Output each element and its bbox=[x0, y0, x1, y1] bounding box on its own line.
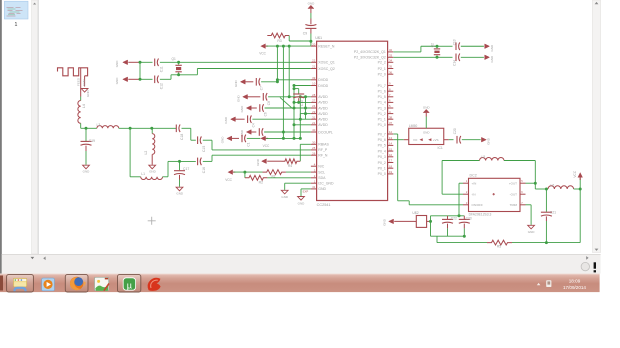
svg-text:AVDD: AVDD bbox=[318, 106, 328, 110]
capacitor C15 bbox=[197, 136, 199, 144]
wire AVDD row1 bbox=[289, 96, 311, 98]
diagonal wire bbox=[280, 97, 293, 108]
node C21 bottom bbox=[545, 241, 548, 244]
svg-text:32: 32 bbox=[389, 48, 393, 52]
node pullup bbox=[243, 171, 246, 174]
wire P0_6 to LM50 bbox=[393, 139, 403, 141]
wire node to L3 bbox=[86, 127, 97, 129]
icon red player bbox=[148, 278, 161, 291]
svg-text:22: 22 bbox=[312, 59, 316, 63]
wire VS to C20 bbox=[449, 139, 454, 141]
svg-text:28: 28 bbox=[312, 93, 316, 97]
svg-text:GND: GND bbox=[115, 60, 119, 68]
svg-text:VO: VO bbox=[413, 138, 418, 142]
pin I2C_GND 1 bbox=[311, 182, 317, 184]
svg-text:C6: C6 bbox=[263, 112, 267, 116]
pin GND 41 bbox=[311, 188, 317, 190]
svg-text:C12: C12 bbox=[159, 83, 163, 89]
bus wire V5 bbox=[299, 97, 301, 139]
node C12 gnd bbox=[139, 78, 142, 81]
wire to L1 bbox=[129, 128, 131, 177]
pin P0_5 14 bbox=[388, 144, 394, 146]
icon explorer folder bbox=[13, 278, 26, 291]
svg-text:GND: GND bbox=[224, 116, 228, 124]
pin P0_7 12 bbox=[388, 133, 394, 135]
wire DVDD2 bbox=[294, 85, 311, 87]
panel divider bbox=[38, 0, 39, 254]
bus wire V6 bbox=[305, 97, 307, 119]
svg-text:10: 10 bbox=[312, 82, 316, 86]
svg-text:P0_4: P0_4 bbox=[378, 149, 386, 153]
bus wire V1 bbox=[276, 46, 278, 82]
svg-text:-OUT: -OUT bbox=[510, 193, 517, 197]
capacitor C9 bbox=[305, 27, 316, 29]
inductor L5 bbox=[480, 157, 504, 160]
wire C11 to XOSC_Q1 bbox=[160, 61, 311, 63]
svg-text:12: 12 bbox=[389, 130, 393, 134]
svg-text:C18: C18 bbox=[180, 134, 184, 140]
resistor R5 bbox=[487, 240, 512, 245]
wire AVDD row3 bbox=[294, 107, 311, 109]
pin AVDD 29 bbox=[311, 113, 317, 115]
svg-text:+VS: +VS bbox=[433, 138, 439, 142]
wire P0_7 to ONOFF bbox=[393, 133, 397, 135]
svg-text:41: 41 bbox=[312, 185, 316, 189]
sidebar dropdown arrow bbox=[31, 257, 35, 259]
svg-text:+OUT: +OUT bbox=[509, 182, 517, 186]
svg-text:29: 29 bbox=[312, 110, 316, 114]
wire VCC to RESET_N bbox=[266, 45, 311, 47]
svg-text:C19: C19 bbox=[89, 139, 95, 143]
capacitor C17 bbox=[179, 161, 181, 170]
svg-text:GND: GND bbox=[82, 79, 86, 87]
svg-text:GND: GND bbox=[234, 80, 238, 88]
svg-text:AVDD: AVDD bbox=[318, 123, 328, 127]
node VCC out bbox=[579, 188, 582, 191]
wire L1 up bbox=[163, 176, 169, 178]
pin P0_4 15 bbox=[388, 150, 394, 152]
svg-text:U$1: U$1 bbox=[315, 36, 322, 40]
tray icon bbox=[546, 280, 551, 287]
svg-text:37: 37 bbox=[389, 121, 393, 125]
pin AVDD 24 bbox=[311, 107, 317, 109]
svg-text:1: 1 bbox=[15, 22, 18, 28]
wire to L6 bbox=[534, 183, 536, 189]
svg-text:21: 21 bbox=[312, 121, 316, 125]
svg-text:17/09/2014: 17/09/2014 bbox=[563, 285, 586, 290]
svg-text:N/C: N/C bbox=[318, 165, 325, 169]
pin AVDD 21 bbox=[311, 124, 317, 126]
svg-text:C11: C11 bbox=[159, 66, 163, 72]
pin RF_N 26 bbox=[311, 154, 317, 156]
ground TRIM bbox=[528, 225, 535, 229]
ground chip bbox=[298, 197, 305, 201]
capacitor C13 bbox=[455, 42, 457, 50]
svg-text:C4: C4 bbox=[252, 123, 256, 127]
svg-text:DVDD: DVDD bbox=[318, 84, 328, 88]
inductor L4 bbox=[78, 101, 81, 124]
wire R3 to node bbox=[288, 36, 290, 42]
pin P2_4/XOSC32K_Q1 32 bbox=[388, 51, 394, 53]
svg-text:18: 18 bbox=[389, 164, 393, 168]
svg-text:ON/OFF: ON/OFF bbox=[472, 203, 483, 207]
svg-text:18:09: 18:09 bbox=[569, 278, 581, 283]
pin DCOUPL 40 bbox=[311, 131, 317, 133]
sidebar scrollbar bbox=[32, 0, 38, 254]
pin N/C 4 bbox=[311, 165, 317, 167]
svg-text:GND: GND bbox=[115, 77, 119, 85]
start orb sliver bbox=[0, 276, 3, 291]
svg-text:GND: GND bbox=[423, 105, 431, 109]
svg-text:GND: GND bbox=[281, 195, 289, 199]
window left border bbox=[0, 0, 2, 274]
wire -IN to L5 bbox=[442, 193, 463, 195]
wire L4 to node bbox=[80, 123, 82, 128]
svg-text:EXP: EXP bbox=[303, 189, 309, 193]
svg-text:DCOUPL: DCOUPL bbox=[318, 130, 333, 134]
svg-text:R2: R2 bbox=[259, 180, 263, 184]
svg-text:VCC: VCC bbox=[573, 170, 577, 177]
svg-text:L6: L6 bbox=[551, 183, 555, 187]
svg-text:C15: C15 bbox=[202, 146, 206, 152]
antenna FEED pin bbox=[80, 68, 82, 97]
wire to C13 bbox=[437, 45, 453, 47]
svg-text:FEED: FEED bbox=[76, 77, 80, 86]
svg-text:C7: C7 bbox=[260, 86, 264, 90]
svg-text:34: 34 bbox=[389, 59, 393, 63]
node RESET bbox=[309, 40, 312, 43]
vertical scrollbar bbox=[592, 0, 600, 253]
svg-text:35: 35 bbox=[389, 65, 393, 69]
svg-text:30: 30 bbox=[312, 141, 316, 145]
cap bottom rail bbox=[431, 235, 465, 237]
supply VCC pullups bbox=[228, 170, 233, 175]
svg-text:GND: GND bbox=[149, 170, 157, 174]
svg-text:SDA: SDA bbox=[318, 176, 326, 180]
tray hidden icons arrow bbox=[537, 283, 541, 285]
pin RF_P 25 bbox=[311, 149, 317, 151]
hscroll left arrow bbox=[43, 257, 45, 261]
ground L2 bbox=[149, 165, 156, 169]
pin DC2 6 bbox=[520, 193, 526, 195]
svg-text:RESET_N: RESET_N bbox=[318, 44, 335, 48]
resistor R2 SDA bbox=[244, 172, 246, 178]
antenna E1 meander bbox=[58, 68, 88, 76]
svg-text:P0_2: P0_2 bbox=[378, 161, 386, 165]
wire to C14 bbox=[437, 56, 453, 58]
inductor L2 bbox=[151, 128, 153, 133]
svg-text:C9: C9 bbox=[303, 32, 307, 36]
node Q2 top bbox=[436, 45, 439, 48]
wire C16 to RF_N bbox=[203, 160, 212, 162]
pin AVDD 27 bbox=[311, 101, 317, 103]
svg-text:GND: GND bbox=[86, 90, 90, 98]
pin P1_5 7 bbox=[388, 96, 394, 98]
svg-text:P2_0: P2_0 bbox=[378, 73, 386, 77]
svg-text:XOSC_Q2: XOSC_Q2 bbox=[318, 67, 335, 71]
ground arrow C13 bbox=[485, 44, 490, 49]
capacitor C16 bbox=[180, 160, 196, 162]
svg-text:C20: C20 bbox=[453, 128, 457, 134]
pin DC2 3 bbox=[463, 204, 469, 206]
horizontal scrollbar band bbox=[2, 254, 601, 274]
svg-text:GND: GND bbox=[308, 1, 316, 5]
capacitor C20 bbox=[456, 136, 458, 144]
svg-text:C8: C8 bbox=[267, 101, 271, 105]
svg-text:P1_3: P1_3 bbox=[378, 106, 386, 110]
sidebar thumbnail page 1 bbox=[4, 1, 28, 19]
svg-text:C10: C10 bbox=[300, 100, 304, 106]
node v2 bbox=[282, 45, 285, 48]
pin P0_6 13 bbox=[388, 139, 394, 141]
pin P2_0 36 bbox=[388, 73, 394, 75]
svg-text:25: 25 bbox=[312, 146, 316, 150]
pin P0_3 16 bbox=[388, 156, 394, 158]
svg-text:DC2: DC2 bbox=[470, 174, 477, 178]
svg-text:GND: GND bbox=[318, 187, 326, 191]
pin P1_3 5 bbox=[388, 107, 394, 109]
wire GND pin bbox=[301, 188, 311, 190]
wire VCC down rail bbox=[579, 189, 581, 243]
svg-text:36: 36 bbox=[389, 70, 393, 74]
wire U$2 to cap rail bbox=[430, 216, 432, 236]
wire Q1 to XOSC_Q2 bbox=[179, 74, 198, 76]
crystal Q2 bbox=[436, 46, 438, 48]
svg-text:C21: C21 bbox=[550, 211, 556, 215]
svg-text:P1_1: P1_1 bbox=[378, 118, 386, 122]
wire DVDD1 bbox=[277, 79, 311, 81]
svg-text:GND: GND bbox=[528, 230, 536, 234]
svg-text:20: 20 bbox=[312, 42, 316, 46]
ground C17 bbox=[176, 187, 183, 191]
wire L6 to VCC node bbox=[574, 188, 581, 190]
pin DC2 1 bbox=[463, 182, 469, 184]
capacitor C21 bbox=[545, 188, 548, 191]
crystal Q1 bbox=[178, 62, 180, 64]
status circle icon bbox=[581, 262, 589, 270]
svg-text:XOSC_Q1: XOSC_Q1 bbox=[318, 61, 335, 65]
resistor R3 bbox=[267, 33, 289, 38]
svg-text:38: 38 bbox=[389, 115, 393, 119]
svg-text:P0_6: P0_6 bbox=[378, 138, 386, 142]
node Q2 bottom bbox=[436, 56, 439, 59]
resistor R4 bbox=[282, 159, 301, 164]
ground C19 bbox=[83, 165, 90, 169]
svg-text:Q2: Q2 bbox=[431, 43, 435, 47]
svg-text:L4: L4 bbox=[82, 104, 86, 108]
power module DC2 body bbox=[469, 178, 521, 211]
svg-text:GND: GND bbox=[221, 136, 225, 144]
svg-text:P2_4/XOSC32K_Q1: P2_4/XOSC32K_Q1 bbox=[354, 50, 386, 54]
svg-text:L5: L5 bbox=[482, 155, 486, 159]
svg-text:24: 24 bbox=[312, 104, 316, 108]
svg-text:GND: GND bbox=[176, 192, 184, 196]
capacitor C22 bbox=[447, 216, 449, 220]
supply VCC out bbox=[579, 179, 581, 189]
svg-text:RBIAS: RBIAS bbox=[318, 143, 329, 147]
node U$2 out bbox=[429, 220, 431, 222]
cursor exclamation mark bbox=[594, 262, 596, 268]
pin P1_0 37 bbox=[388, 124, 394, 126]
wire L3 to node2 bbox=[119, 127, 152, 129]
bus wire V2 bbox=[282, 46, 284, 138]
node antenna match bbox=[85, 127, 88, 130]
svg-text:33: 33 bbox=[389, 54, 393, 58]
rail to caps bbox=[436, 236, 438, 242]
svg-text:DVDD: DVDD bbox=[318, 78, 328, 82]
svg-text:27: 27 bbox=[312, 99, 316, 103]
svg-text:VCC: VCC bbox=[225, 178, 232, 182]
hscroll right arrow bbox=[586, 256, 588, 260]
pin AVDD 28 bbox=[311, 96, 317, 98]
svg-text:SCL: SCL bbox=[318, 170, 325, 174]
svg-text:16: 16 bbox=[389, 153, 393, 157]
ground I2C bbox=[281, 190, 288, 194]
pin P2_1 35 bbox=[388, 68, 394, 70]
svg-text:GND: GND bbox=[256, 158, 260, 166]
taskbar button firefox bbox=[65, 275, 88, 292]
node C17 bbox=[178, 160, 181, 163]
wire L5 to +OUT bbox=[504, 160, 535, 162]
svg-text:VCC: VCC bbox=[259, 51, 266, 55]
svg-text:21: 21 bbox=[312, 65, 316, 69]
wire XOSC32K_Q1 bbox=[393, 51, 421, 53]
svg-text:C13: C13 bbox=[452, 39, 456, 45]
node L3-L2 bbox=[150, 127, 153, 130]
svg-text:AVDD: AVDD bbox=[318, 112, 328, 116]
supply VCC cluster bbox=[260, 136, 265, 141]
inductor L3 bbox=[97, 126, 119, 129]
wire C15 to RF_P bbox=[203, 139, 212, 141]
node +OUT bbox=[534, 182, 537, 185]
gnd link C11 C12 bbox=[139, 62, 141, 79]
svg-text:C16: C16 bbox=[202, 167, 206, 173]
pin P2_3/XOSC32K_Q2 33 bbox=[388, 56, 394, 58]
svg-text:AVDD: AVDD bbox=[318, 118, 328, 122]
node Q1 top bbox=[177, 61, 180, 64]
pin P1_4 6 bbox=[388, 101, 394, 103]
supply VCC reset bbox=[260, 44, 265, 49]
icon image viewer bbox=[95, 277, 110, 291]
pin VO bbox=[404, 139, 409, 141]
svg-text:IC1: IC1 bbox=[438, 146, 443, 150]
svg-text:P0_0: P0_0 bbox=[378, 172, 386, 176]
svg-text:GND: GND bbox=[83, 170, 91, 174]
pin P0_2 17 bbox=[388, 162, 394, 164]
svg-text:L3: L3 bbox=[97, 123, 101, 127]
svg-text:P1_2: P1_2 bbox=[378, 112, 386, 116]
wire TRIM gnd bbox=[526, 204, 532, 206]
svg-text:P1_6: P1_6 bbox=[378, 90, 386, 94]
svg-text:U$2: U$2 bbox=[412, 211, 418, 215]
pin XOSC_Q2 21 bbox=[311, 68, 317, 70]
svg-text:C23: C23 bbox=[466, 216, 472, 220]
pin XOSC_Q1 22 bbox=[311, 61, 317, 63]
svg-text:C17: C17 bbox=[183, 167, 189, 171]
svg-text:GND: GND bbox=[423, 131, 429, 135]
capacitor C18 bbox=[152, 127, 176, 129]
svg-text:R4: R4 bbox=[288, 164, 292, 168]
pin DVDD 10 bbox=[311, 85, 317, 87]
svg-text:P2_2: P2_2 bbox=[378, 61, 386, 65]
svg-text:C14: C14 bbox=[452, 60, 456, 66]
capacitor C11 bbox=[140, 61, 153, 63]
pin P1_7 9 bbox=[388, 85, 394, 87]
svg-text:P0_1: P0_1 bbox=[378, 167, 386, 171]
ground below antenna bbox=[81, 89, 88, 93]
icon firefox bbox=[70, 277, 86, 290]
pin DC2 7 bbox=[520, 204, 526, 206]
svg-text:R5: R5 bbox=[497, 245, 501, 249]
pin DC2 5 bbox=[520, 182, 526, 184]
svg-text:13: 13 bbox=[389, 136, 393, 140]
pin +VS bbox=[444, 139, 449, 141]
svg-text:P2_3/XOSC32K_Q2: P2_3/XOSC32K_Q2 bbox=[354, 56, 386, 60]
svg-text:GND: GND bbox=[382, 218, 386, 226]
svg-text:C22: C22 bbox=[451, 216, 457, 220]
svg-text:RF_P: RF_P bbox=[318, 148, 328, 152]
wire AVDD row2 bbox=[294, 101, 311, 103]
pin RESET_N 20 bbox=[311, 45, 317, 47]
capacitor C19 bbox=[85, 128, 87, 141]
capacitor C10 bbox=[294, 88, 299, 90]
svg-text:P0_3: P0_3 bbox=[378, 155, 386, 159]
capacitor C14 bbox=[455, 54, 457, 62]
svg-text:GND: GND bbox=[236, 95, 240, 103]
svg-text:Q1: Q1 bbox=[172, 57, 176, 61]
capacitor C23 bbox=[463, 216, 465, 220]
wire AVDD row5 bbox=[300, 118, 311, 120]
svg-text:R3: R3 bbox=[277, 39, 281, 43]
svg-text:GND: GND bbox=[490, 55, 494, 63]
svg-text:C1: C1 bbox=[246, 142, 250, 146]
svg-text:P1_0: P1_0 bbox=[378, 123, 386, 127]
wire RBIAS bbox=[300, 143, 311, 145]
svg-text:40: 40 bbox=[312, 128, 316, 132]
wire AVDD row6 bbox=[294, 124, 311, 126]
svg-text:P1_5: P1_5 bbox=[378, 95, 386, 99]
svg-text:P1_7: P1_7 bbox=[378, 84, 386, 88]
node Q1 bottom bbox=[177, 73, 180, 76]
wire DCOUPL bbox=[283, 131, 311, 133]
svg-text:I2C_GND: I2C_GND bbox=[318, 182, 334, 186]
pin RBIAS 30 bbox=[311, 143, 317, 145]
wire gnd to C9 bbox=[310, 9, 312, 13]
svg-text:GND: GND bbox=[298, 201, 306, 205]
svg-text:17: 17 bbox=[389, 159, 393, 163]
ground arrow C14 bbox=[485, 55, 490, 60]
taskbar button utorrent bbox=[118, 275, 141, 292]
wire C12 to Q1 bbox=[160, 78, 171, 80]
svg-text:GND: GND bbox=[240, 105, 244, 113]
svg-text:GND: GND bbox=[490, 44, 494, 52]
svg-text:µ: µ bbox=[127, 280, 132, 290]
taskbar button explorer bbox=[7, 275, 34, 292]
svg-text:P0_7: P0_7 bbox=[378, 132, 386, 136]
antenna GND pin bbox=[84, 76, 86, 87]
svg-text:-IN: -IN bbox=[472, 193, 476, 197]
pin DC2 2 bbox=[463, 193, 469, 195]
svg-text:LM50: LM50 bbox=[409, 124, 418, 128]
svg-text:AVDD: AVDD bbox=[318, 95, 328, 99]
svg-text:P0_5: P0_5 bbox=[378, 144, 386, 148]
svg-text:14: 14 bbox=[389, 142, 393, 146]
pin DVDD 39 bbox=[311, 79, 317, 81]
svg-text:31: 31 bbox=[312, 115, 316, 119]
wire C18 to C15 bbox=[190, 128, 192, 140]
svg-text:VCC: VCC bbox=[263, 144, 270, 148]
pin P1_6 8 bbox=[388, 90, 394, 92]
